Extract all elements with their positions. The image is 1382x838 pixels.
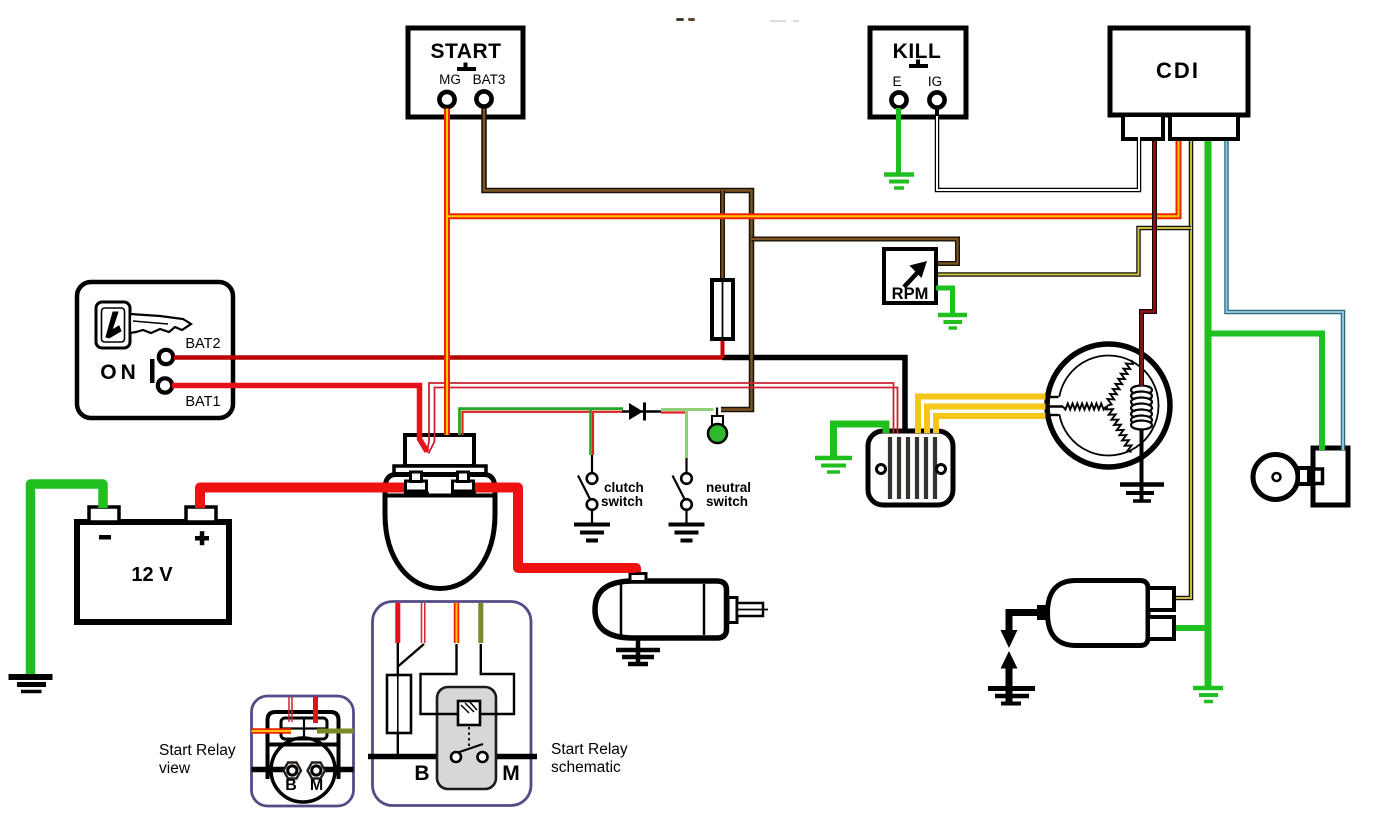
wire pale green neutral switch drop: [685, 411, 688, 473]
wire red fuse bottom segment: [721, 338, 725, 358]
wire brown BAT3 feed (start button to lamp): [484, 109, 752, 410]
CDI unit box: [1110, 28, 1248, 115]
wire red/yellow MG to relay and CDI: [447, 109, 1179, 436]
starter motor terminal tab: [630, 574, 646, 582]
ignition coil terminal tab upper: [1148, 588, 1174, 610]
svg-text:MG: MG: [439, 72, 461, 87]
start relay schematic box: [373, 602, 532, 806]
svg-text:IG: IG: [928, 74, 942, 89]
wire green CDI main: [1205, 141, 1212, 686]
schematic wire red B: [395, 603, 400, 643]
kill switch terminal E: [891, 92, 906, 107]
wire yellow stator phase 1: [918, 397, 1046, 434]
relay view hex nut M: [308, 763, 326, 779]
stator magneto housing: [1047, 344, 1170, 467]
main fuse: [712, 280, 733, 339]
relay bolt terminal M: [451, 472, 476, 494]
relay bolt terminal B: [404, 472, 429, 494]
battery 12V: [77, 522, 229, 622]
schematic wire olive: [478, 603, 483, 643]
wire yellow/black CDI to ignition coil: [1176, 141, 1191, 598]
svg-text:neutral: neutral: [706, 480, 751, 495]
battery positive terminal post: [186, 507, 216, 522]
label neutral switch: [706, 480, 751, 509]
svg-text:view: view: [159, 760, 191, 777]
stator Y windings: [1063, 360, 1133, 452]
relay view wire red: [313, 697, 318, 724]
svg-text:Start Relay: Start Relay: [551, 741, 628, 758]
CDI left connector tab: [1123, 115, 1163, 139]
ignition key icon: [96, 302, 191, 348]
starter motor body: [595, 581, 727, 638]
svg-text:ON: ON: [100, 361, 140, 384]
horn pickup disc: [1253, 455, 1309, 500]
neutral switch: [673, 473, 692, 524]
kill ground: [884, 175, 914, 189]
wire green battery negative: [31, 484, 104, 675]
wire thick red relay to starter motor: [472, 488, 636, 573]
relay view hex nut B: [284, 763, 302, 779]
wire brown branch to fuse: [720, 191, 725, 283]
RPM ground: [938, 315, 967, 328]
relay view wire olive: [317, 729, 354, 734]
clutch switch ground: [574, 525, 610, 541]
svg-text:E: E: [892, 74, 901, 89]
schematic actuator dashed link: [468, 727, 470, 747]
wire green/red relay to diode: [460, 409, 624, 435]
wire thick red battery to relay: [200, 488, 407, 509]
svg-text:switch: switch: [601, 494, 643, 509]
wire black battery feed to rectifier: [723, 358, 906, 434]
svg-text:Start Relay: Start Relay: [159, 742, 236, 759]
label clutch switch: [601, 480, 644, 509]
wire red BAT1 to relay: [172, 386, 427, 452]
relay view bus bar: [252, 767, 354, 773]
wire brown branch to RPM gauge: [752, 239, 958, 264]
spark plug ground: [988, 689, 1035, 704]
start relay flange: [394, 466, 486, 475]
kill switch box: [870, 28, 966, 117]
spark plug HT lead: [1001, 605, 1048, 702]
svg-text:B: B: [414, 762, 429, 785]
start relay top box: [405, 435, 474, 466]
wire yellow stator phase 3: [936, 416, 1046, 433]
horn connector box: [1313, 448, 1348, 505]
schematic fuse lead: [397, 643, 399, 757]
label start relay schematic: [551, 741, 628, 776]
wire pale green diode to lamp: [661, 410, 714, 413]
kill switch terminal IG: [929, 92, 944, 107]
svg-text:switch: switch: [706, 494, 748, 509]
wire yellow/black branch to RPM gauge: [938, 228, 1191, 275]
schematic bus bar: [368, 754, 537, 760]
svg-text:12 V: 12 V: [131, 564, 173, 586]
relay view wire red/yellow: [252, 728, 292, 734]
schematic relay body: [437, 687, 496, 789]
start relay body: [385, 475, 495, 589]
ignition pickup coil spring: [1131, 386, 1152, 468]
schematic fuse: [387, 675, 411, 733]
CDI green ground: [1193, 688, 1223, 702]
schematic joining lead: [399, 644, 425, 666]
ignition coil terminal tab lower: [1148, 617, 1174, 639]
svg-text:START: START: [431, 40, 502, 63]
wire green kill E ground: [896, 108, 901, 173]
svg-text:BAT2: BAT2: [185, 336, 220, 352]
wire green rectifier ground: [834, 424, 887, 456]
relay view base circle: [271, 738, 335, 802]
schematic wire thin red pair: [422, 603, 425, 643]
ignition key switch box: [77, 282, 233, 418]
start relay view box: [252, 696, 354, 806]
schematic wire red/yellow: [454, 603, 460, 643]
RPM gauge box: [884, 249, 936, 303]
battery negative terminal post: [89, 507, 119, 522]
label start relay view: [159, 742, 236, 777]
artifacts: [676, 18, 799, 22]
svg-text:M: M: [310, 777, 323, 794]
ignition terminal BAT1: [158, 378, 172, 392]
start switch terminal BAT3: [476, 91, 491, 106]
svg-text:clutch: clutch: [604, 480, 644, 495]
schematic coil element: [458, 701, 480, 725]
ignition terminal BAT2: [159, 350, 173, 364]
svg-text:schematic: schematic: [551, 759, 621, 776]
svg-text:BAT1: BAT1: [185, 394, 220, 410]
schematic coil loop left: [421, 644, 459, 714]
svg-text:RPM: RPM: [892, 285, 929, 303]
wire blue CDI to horn connector: [1227, 141, 1344, 450]
svg-text:M: M: [502, 762, 520, 785]
rectifier ground: [815, 458, 852, 472]
svg-text:CDI: CDI: [1156, 58, 1200, 83]
battery ground: [9, 677, 53, 692]
relay view connector shell: [268, 712, 339, 779]
relay view inner connector: [281, 718, 327, 739]
wire black/white kill IG to CDI: [937, 107, 1139, 190]
start relay body top edge: [386, 494, 494, 498]
schematic switch: [451, 744, 488, 762]
svg-text:BAT3: BAT3: [473, 72, 506, 87]
wire yellow stator phase 2: [927, 407, 1046, 434]
wire green branch to horn connector: [1208, 334, 1322, 451]
clutch switch: [578, 473, 597, 524]
neutral indicator lamp: [708, 408, 727, 444]
ignition coil body: [1048, 581, 1149, 646]
wire dark maroon CDI to pickup coil: [1142, 141, 1155, 386]
wire green RPM ground: [936, 288, 953, 313]
wire green ignition coil to ground bus: [1176, 625, 1211, 631]
starter motor ground: [616, 638, 660, 665]
wire green/red clutch switch drop: [591, 410, 594, 473]
schematic coil loop right: [480, 644, 514, 714]
wire thin red pair relay to rectifier: [427, 383, 898, 454]
stator ground: [1120, 429, 1164, 501]
stator winding leads: [1046, 397, 1063, 415]
CDI right connector tab: [1170, 115, 1238, 139]
starter motor shaft: [728, 598, 768, 623]
diode: [622, 403, 661, 421]
relay view wire thin red pair: [289, 697, 292, 723]
rectifier regulator: [868, 431, 953, 505]
neutral switch ground: [669, 525, 705, 541]
start switch box: [408, 28, 523, 117]
wire dark red BAT2 to fuse junction: [174, 355, 723, 360]
start switch terminal MG: [439, 92, 454, 107]
svg-text:B: B: [285, 777, 297, 794]
